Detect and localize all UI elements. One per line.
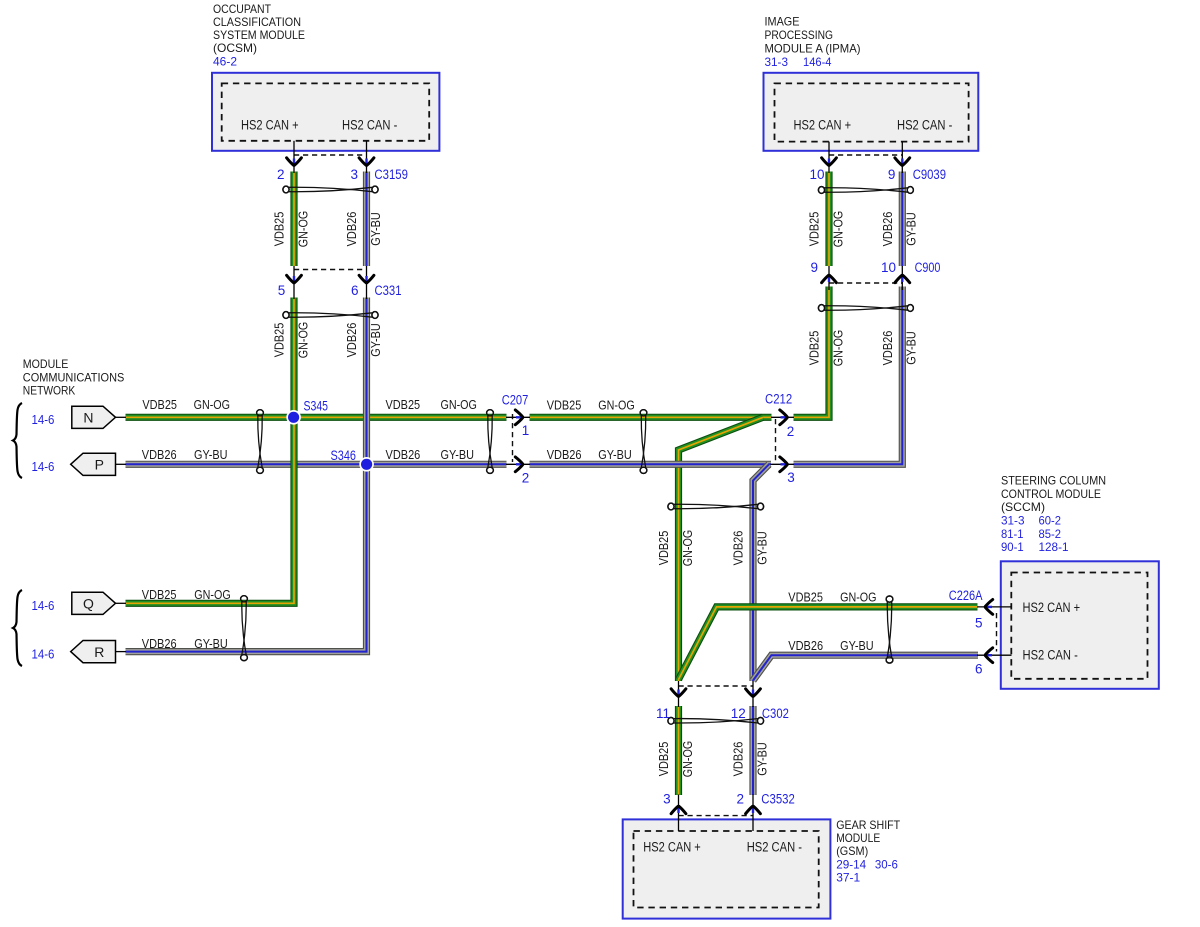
svg-text:VDB26: VDB26 <box>344 323 359 358</box>
svg-text:GY-BU: GY-BU <box>368 212 383 246</box>
svg-text:P: P <box>95 457 104 473</box>
svg-text:GN-OG: GN-OG <box>680 741 695 777</box>
svg-text:31-3: 31-3 <box>765 55 789 69</box>
svg-text:MODULE: MODULE <box>836 831 880 845</box>
svg-text:30-6: 30-6 <box>875 858 898 872</box>
svg-text:R: R <box>94 644 104 660</box>
svg-text:VDB26: VDB26 <box>386 447 421 462</box>
svg-text:(GSM): (GSM) <box>836 844 868 858</box>
svg-text:VDB25: VDB25 <box>807 331 822 366</box>
svg-text:GEAR SHIFT: GEAR SHIFT <box>836 818 901 832</box>
svg-text:6: 6 <box>351 283 359 298</box>
svg-text:C302: C302 <box>762 706 789 721</box>
svg-text:GY-BU: GY-BU <box>904 212 919 246</box>
svg-text:(OCSM): (OCSM) <box>213 41 257 55</box>
svg-text:14-6: 14-6 <box>32 599 55 613</box>
svg-text:VDB26: VDB26 <box>731 742 746 777</box>
svg-text:10: 10 <box>809 167 824 182</box>
svg-text:HS2 CAN -: HS2 CAN - <box>1023 648 1078 663</box>
svg-text:GY-BU: GY-BU <box>194 636 228 651</box>
svg-text:MODULE A (IPMA): MODULE A (IPMA) <box>765 42 861 56</box>
svg-text:HS2 CAN -: HS2 CAN - <box>342 118 397 133</box>
svg-text:CONTROL MODULE: CONTROL MODULE <box>1001 487 1101 501</box>
svg-text:81-1: 81-1 <box>1001 527 1024 541</box>
svg-text:3: 3 <box>663 792 671 807</box>
svg-text:C212: C212 <box>765 392 792 407</box>
svg-text:VDB25: VDB25 <box>142 397 177 412</box>
svg-text:N: N <box>83 410 93 426</box>
svg-text:Q: Q <box>83 596 94 612</box>
svg-text:C3532: C3532 <box>761 792 795 807</box>
svg-text:VDB25: VDB25 <box>656 742 671 777</box>
svg-text:VDB26: VDB26 <box>880 212 895 247</box>
svg-text:CLASSIFICATION: CLASSIFICATION <box>213 15 301 29</box>
svg-text:10: 10 <box>881 260 896 275</box>
svg-text:C226A: C226A <box>949 588 983 603</box>
svg-text:GY-BU: GY-BU <box>194 447 228 462</box>
svg-text:14-6: 14-6 <box>32 648 55 662</box>
svg-text:2: 2 <box>522 471 530 486</box>
svg-text:11: 11 <box>656 706 670 721</box>
svg-text:HS2 CAN +: HS2 CAN + <box>643 840 701 855</box>
svg-text:2: 2 <box>787 424 795 439</box>
svg-text:GN-OG: GN-OG <box>680 530 695 566</box>
svg-text:VDB25: VDB25 <box>272 323 287 358</box>
svg-text:GN-OG: GN-OG <box>598 398 634 413</box>
svg-text:VDB26: VDB26 <box>344 212 359 247</box>
svg-text:NETWORK: NETWORK <box>23 384 76 398</box>
svg-text:146-4: 146-4 <box>803 55 832 69</box>
svg-text:COMMUNICATIONS: COMMUNICATIONS <box>23 370 125 384</box>
svg-text:31-3: 31-3 <box>1001 514 1025 528</box>
svg-text:VDB26: VDB26 <box>142 447 177 462</box>
svg-text:2: 2 <box>277 167 285 182</box>
svg-text:9: 9 <box>810 260 818 275</box>
svg-text:12: 12 <box>731 706 746 721</box>
svg-text:S345: S345 <box>304 399 329 414</box>
svg-text:VDB26: VDB26 <box>142 636 177 651</box>
svg-text:GN-OG: GN-OG <box>830 211 845 247</box>
svg-text:3: 3 <box>787 470 795 485</box>
svg-text:IMAGE: IMAGE <box>765 15 800 29</box>
svg-text:GN-OG: GN-OG <box>840 590 876 605</box>
svg-text:VDB26: VDB26 <box>880 331 895 366</box>
svg-text:GN-OG: GN-OG <box>295 211 310 247</box>
svg-text:5: 5 <box>278 283 286 298</box>
svg-text:C207: C207 <box>502 393 529 408</box>
svg-text:1: 1 <box>522 423 530 438</box>
svg-text:9: 9 <box>888 167 896 182</box>
svg-text:29-14: 29-14 <box>836 858 866 872</box>
svg-text:MODULE: MODULE <box>23 357 69 371</box>
svg-text:VDB25: VDB25 <box>386 397 421 412</box>
svg-text:2: 2 <box>736 792 744 807</box>
svg-text:VDB26: VDB26 <box>788 638 823 653</box>
svg-text:HS2 CAN +: HS2 CAN + <box>794 118 852 133</box>
svg-text:GY-BU: GY-BU <box>598 447 632 462</box>
svg-text:VDB26: VDB26 <box>731 531 746 566</box>
svg-text:HS2 CAN +: HS2 CAN + <box>241 118 299 133</box>
svg-text:GY-BU: GY-BU <box>840 638 874 653</box>
svg-text:GY-BU: GY-BU <box>441 447 475 462</box>
svg-text:VDB25: VDB25 <box>272 212 287 247</box>
svg-text:STEERING COLUMN: STEERING COLUMN <box>1001 474 1106 488</box>
svg-text:HS2 CAN -: HS2 CAN - <box>747 840 802 855</box>
svg-text:VDB25: VDB25 <box>807 212 822 247</box>
svg-text:14-6: 14-6 <box>32 413 55 427</box>
svg-text:C9039: C9039 <box>913 167 946 182</box>
svg-text:VDB25: VDB25 <box>788 590 823 605</box>
svg-text:OCCUPANT: OCCUPANT <box>213 2 272 16</box>
svg-text:85-2: 85-2 <box>1039 527 1062 541</box>
svg-text:60-2: 60-2 <box>1039 514 1062 528</box>
svg-text:14-6: 14-6 <box>32 460 55 474</box>
svg-text:HS2 CAN +: HS2 CAN + <box>1023 600 1081 615</box>
svg-text:37-1: 37-1 <box>836 871 860 885</box>
svg-text:5: 5 <box>975 616 983 631</box>
svg-text:GY-BU: GY-BU <box>754 742 769 776</box>
svg-text:GN-OG: GN-OG <box>830 330 845 366</box>
svg-text:C900: C900 <box>915 260 941 275</box>
svg-text:128-1: 128-1 <box>1039 540 1069 554</box>
svg-text:90-1: 90-1 <box>1001 540 1024 554</box>
svg-text:GN-OG: GN-OG <box>194 397 230 412</box>
svg-text:SYSTEM MODULE: SYSTEM MODULE <box>213 28 305 42</box>
svg-text:GY-BU: GY-BU <box>754 531 769 565</box>
svg-text:GN-OG: GN-OG <box>295 322 310 358</box>
svg-text:3: 3 <box>350 167 358 182</box>
svg-text:HS2 CAN -: HS2 CAN - <box>897 118 952 133</box>
svg-text:GY-BU: GY-BU <box>368 323 383 357</box>
svg-text:PROCESSING: PROCESSING <box>765 28 834 42</box>
svg-text:GN-OG: GN-OG <box>441 397 477 412</box>
svg-text:VDB25: VDB25 <box>142 587 177 602</box>
svg-text:GY-BU: GY-BU <box>904 331 919 365</box>
svg-text:(SCCM): (SCCM) <box>1001 500 1045 514</box>
svg-text:VDB25: VDB25 <box>547 398 582 413</box>
svg-text:46-2: 46-2 <box>213 55 237 69</box>
svg-text:6: 6 <box>975 662 983 677</box>
svg-text:S346: S346 <box>331 448 357 463</box>
svg-text:VDB25: VDB25 <box>656 531 671 566</box>
svg-text:C331: C331 <box>375 283 402 298</box>
svg-text:GN-OG: GN-OG <box>194 587 230 602</box>
svg-text:C3159: C3159 <box>374 167 408 182</box>
svg-text:VDB26: VDB26 <box>547 447 582 462</box>
